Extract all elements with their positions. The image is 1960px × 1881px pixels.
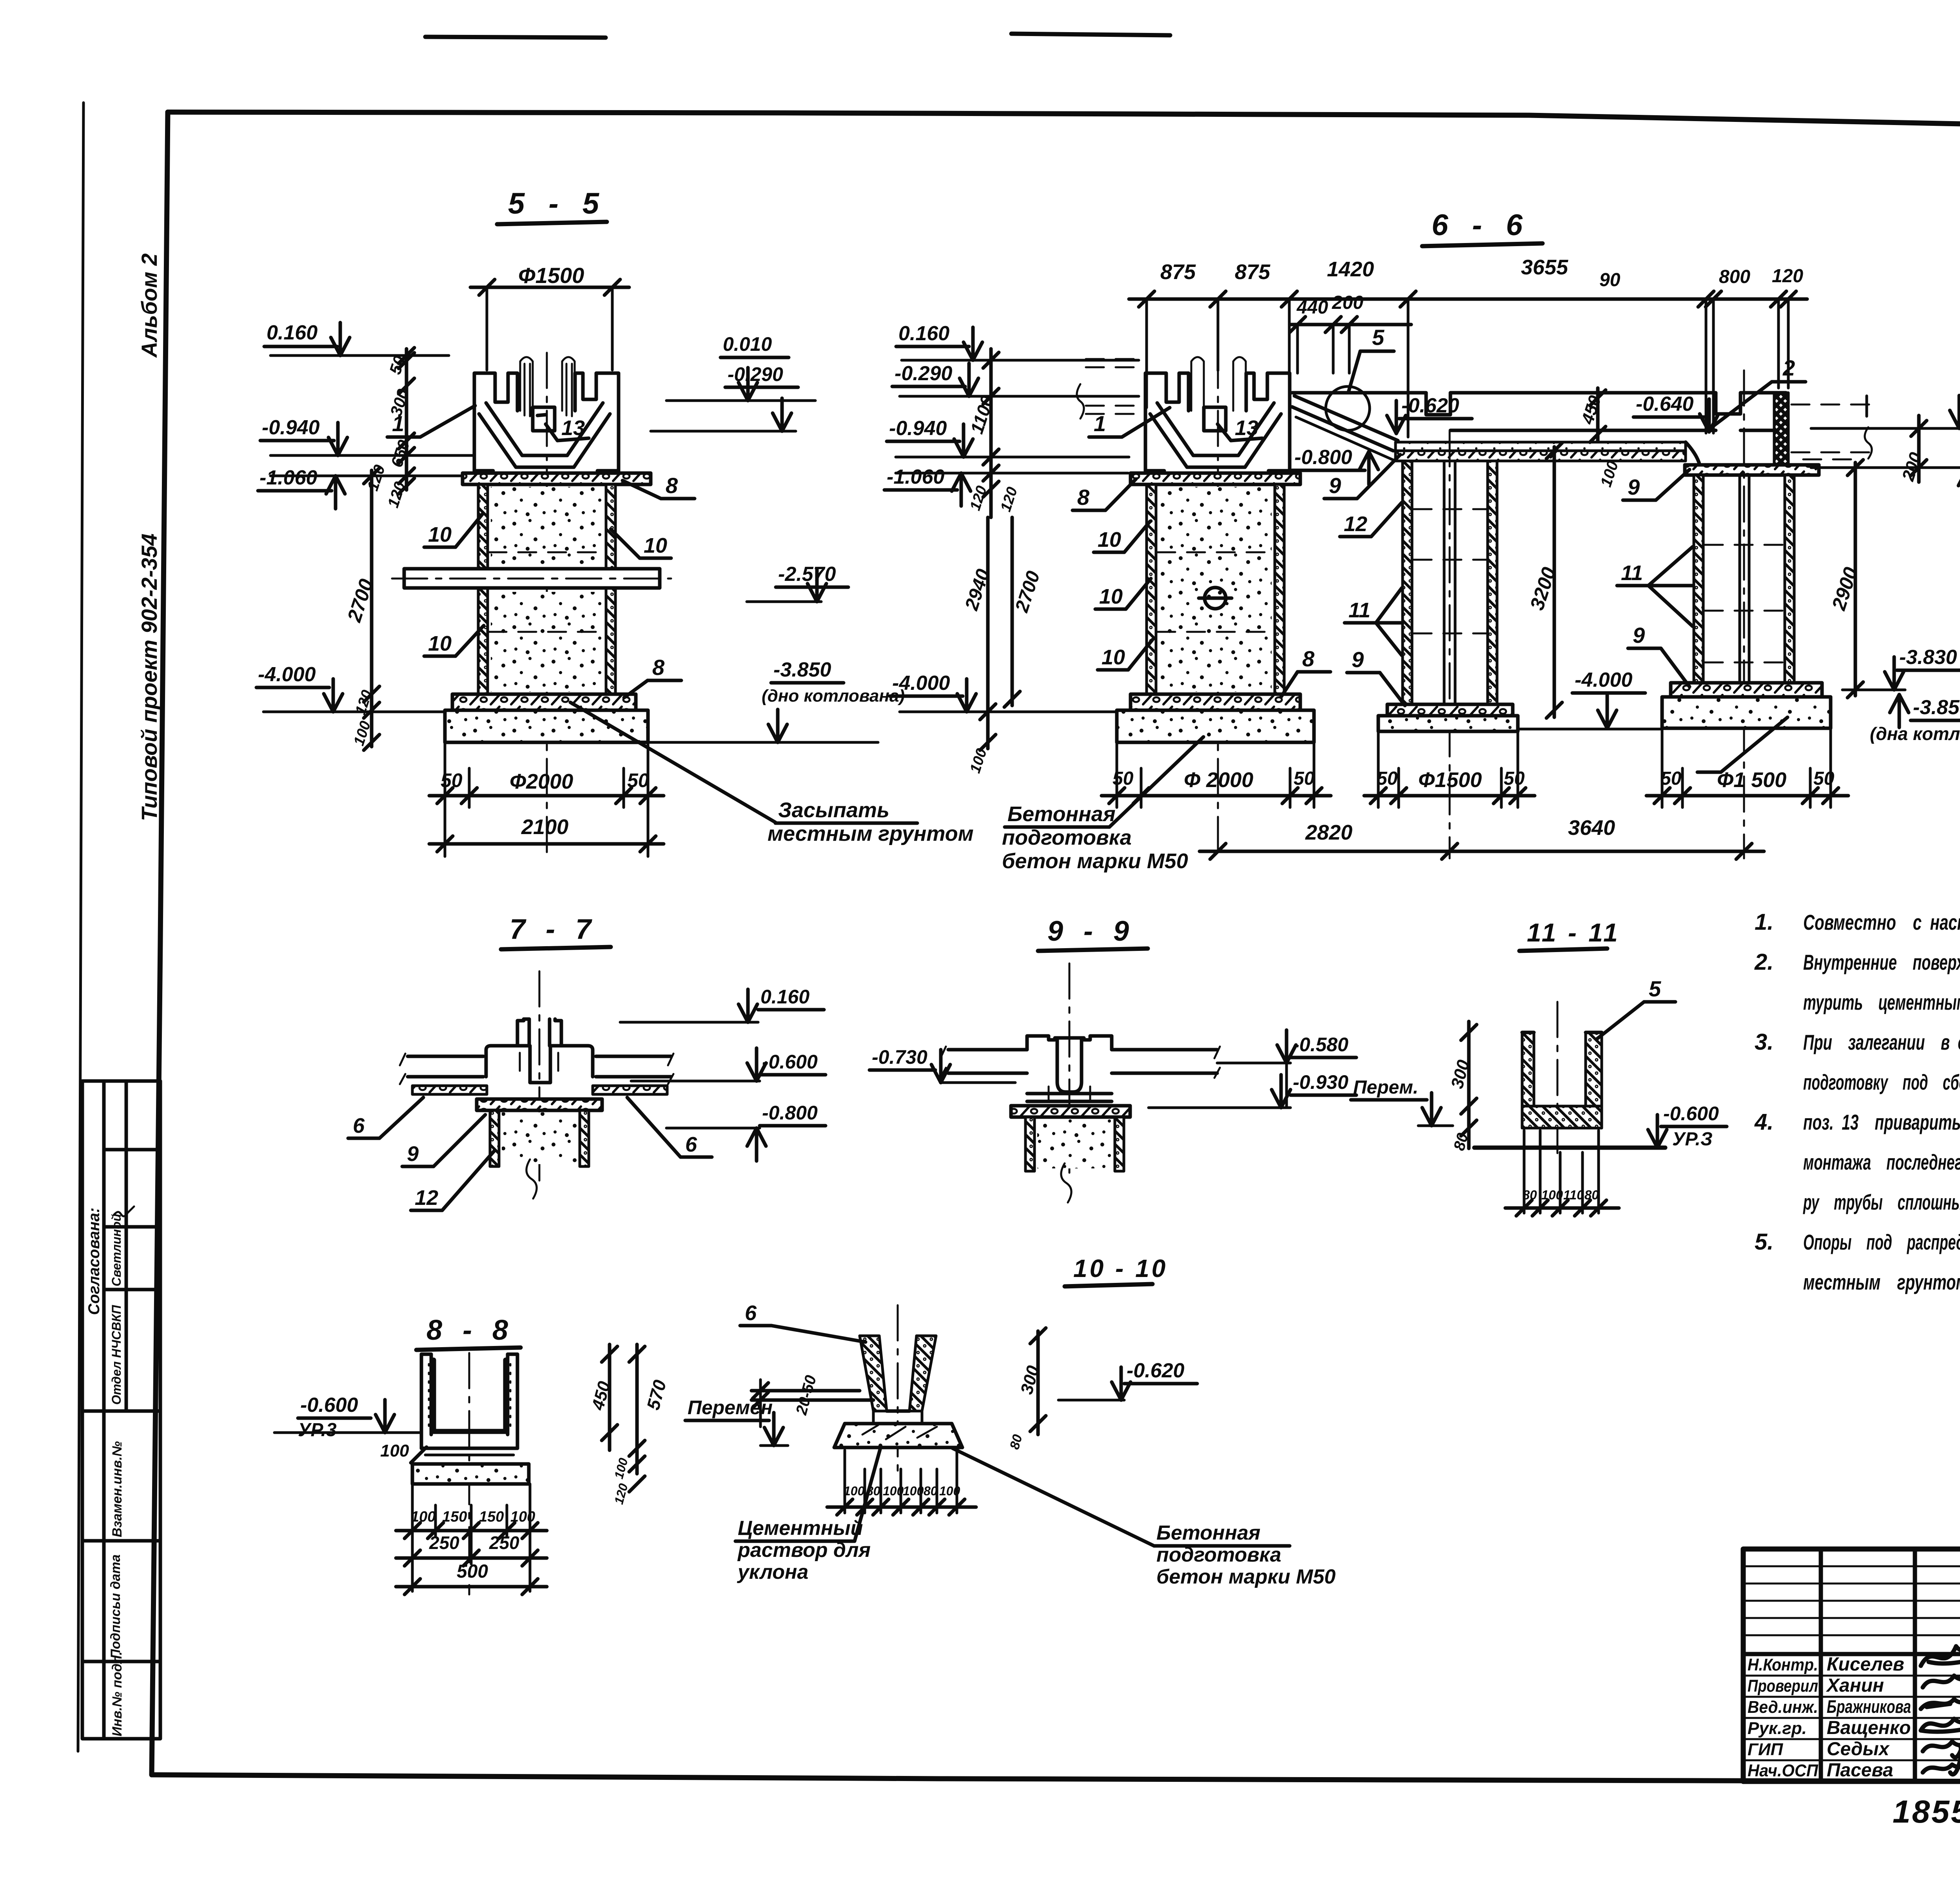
svg-text:80: 80 [924,1484,938,1498]
svg-text:100: 100 [1541,1188,1563,1202]
dim 200 right [1917,415,1921,482]
svg-text:8: 8 [1302,646,1315,671]
svg-text:50: 50 [1112,768,1134,789]
svg-text:Отдел НЧСВКП: Отдел НЧСВКП [109,1305,123,1405]
centerline left shaft [1217,353,1219,858]
svg-text:УР.З: УР.З [1672,1129,1713,1150]
svg-text:Бетонная: Бетонная [1007,802,1116,826]
svg-text:Вед.инж.: Вед.инж. [1748,1698,1818,1717]
dim 2100 [429,842,664,846]
svg-text:9 - 9: 9 - 9 [1047,916,1135,947]
svg-text:5: 5 [1372,325,1385,350]
svg-text:18554-02 1Б формат 22: 18554-02 1Б формат 22 [1893,1794,1960,1830]
svg-text:Ф1 500: Ф1 500 [1717,768,1786,792]
svg-text:Седых: Седых [1827,1739,1890,1759]
svg-text:Н.Контр.: Н.Контр. [1748,1655,1818,1674]
svg-text:Светлиной: Светлиной [109,1214,123,1286]
svg-text:-0.800: -0.800 [762,1102,818,1124]
concrete foundation pad [445,710,648,742]
bottom ring slab pos.8 [452,694,636,710]
left shaft bottom slab [1131,694,1300,710]
svg-text:3655: 3655 [1521,256,1568,279]
svg-text:Согласована:: Согласована: [85,1208,103,1315]
svg-text:-0.290: -0.290 [895,362,953,385]
middle shaft bottom slab [1387,704,1513,716]
left dim chain inner [405,349,408,490]
svg-text:800: 800 [1719,267,1750,287]
right shaft walls [1694,475,1703,683]
svg-text:100: 100 [844,1484,865,1498]
svg-text:50: 50 [441,769,463,791]
svg-text:110: 110 [1563,1188,1584,1202]
svg-text:Бражникова: Бражникова [1827,1696,1911,1717]
shim lines left [751,1389,860,1393]
survey mark circle [1205,588,1226,609]
U trough walls [420,1354,423,1448]
svg-text:Киселев: Киселев [1827,1654,1904,1675]
dim 2820 / 3640 [1200,850,1764,853]
bottom small dims [1523,1130,1526,1213]
dim 2900 [1854,463,1857,696]
svg-text:ру трубы сплошным швом, Эл: ру трубы сплошным швом, Электродами типа… [1803,1190,1960,1214]
svg-text:2820: 2820 [1305,821,1352,844]
svg-text:13: 13 [561,416,585,440]
small dims under pad [844,1450,846,1513]
svg-text:-0.620: -0.620 [1127,1359,1185,1382]
svg-text:Ващенко: Ващенко [1827,1718,1911,1738]
svg-text:6: 6 [353,1114,365,1137]
svg-text:-0.940: -0.940 [262,416,320,439]
left dim chain outer 2700 [370,470,374,747]
svg-text:150: 150 [442,1509,467,1525]
V trough walls hatched [860,1336,887,1411]
left vertical dim chains [989,349,993,517]
svg-text:местным грунтом: местным грунтом [768,822,974,845]
distribution chamber cap (pos.1) in 6-6 [1145,357,1290,471]
svg-text:100: 100 [510,1509,535,1525]
svg-text:-0.940: -0.940 [889,417,947,440]
svg-text:-3.830: -3.830 [1899,646,1957,669]
top dimension chain 875 875 1420 3655 90 800 120 [1129,297,1807,301]
svg-text:9: 9 [407,1142,419,1166]
svg-text:Пасева: Пасева [1827,1760,1893,1781]
chamber cap (pos.1) [474,373,517,471]
slab under block [477,1099,602,1110]
support walls [1025,1117,1034,1171]
svg-text:2: 2 [1782,356,1795,380]
svg-text:6: 6 [685,1133,697,1156]
sheet frame (warped scan) [168,112,1960,135]
svg-text:Ф 2000: Ф 2000 [1184,768,1253,792]
svg-text:-0.620: -0.620 [1401,394,1459,417]
svg-text:9: 9 [1633,623,1645,648]
middle support shaft walls pos.11 [1403,461,1412,704]
svg-text:Перем.: Перем. [1353,1077,1418,1098]
6-6 bottom dims [1116,742,1118,807]
svg-text:5 - 5: 5 - 5 [508,187,607,220]
left margin table: Согласована [82,1081,160,1411]
svg-text:8: 8 [1077,485,1090,510]
left margin thin trim line [78,103,83,1751]
backfill inside shaft [491,487,604,565]
svg-text:1: 1 [392,411,404,436]
bottom dim rows [411,1484,414,1591]
chamber upper wall outline [1292,393,1786,415]
svg-text:8: 8 [652,655,665,680]
svg-text:подготовка: подготовка [1002,826,1132,849]
svg-text:УР.3: УР.3 [298,1420,337,1440]
svg-text:80: 80 [1523,1188,1537,1202]
bedding joint [425,1454,514,1457]
svg-text:4.: 4. [1754,1109,1773,1135]
dim 3200 [1553,447,1556,717]
svg-text:-0.730: -0.730 [872,1046,927,1068]
right dims 450 570 [608,1344,612,1450]
svg-text:11 - 11: 11 - 11 [1527,918,1620,947]
chamber right end dashed continuation [1791,404,1870,406]
svg-text:9: 9 [1628,475,1640,499]
svg-text:10: 10 [428,523,452,546]
svg-text:-4.000: -4.000 [1575,669,1633,691]
shaft wall rings pos.10 left [478,484,488,694]
svg-text:50: 50 [1377,768,1398,789]
svg-text:50: 50 [627,769,649,791]
svg-text:ГИП: ГИП [1748,1740,1784,1759]
svg-text:1420: 1420 [1327,258,1374,281]
svg-text:100: 100 [411,1509,436,1525]
left shaft top slab pos.8 [1131,473,1300,484]
inner torkret lining [434,1360,506,1431]
left margin strip: Взамен инв.№ / Подписьи дата / Инв.№ подл. [82,1411,160,1739]
svg-text:-0.600: -0.600 [762,1051,818,1073]
dno kotlovana line [648,741,878,744]
svg-text:Нач.ОСП: Нач.ОСП [1748,1761,1818,1780]
svg-text:9: 9 [1329,473,1341,498]
dim 50 Ф2000 50 below [444,742,446,807]
central cast block [1027,1036,1112,1050]
svg-text:Ханин: Ханин [1826,1675,1884,1696]
svg-text:Бетонная: Бетонная [1156,1522,1260,1544]
svg-text:250: 250 [489,1533,519,1553]
incoming trough dashed (beyond section) [1086,358,1138,360]
svg-text:бетон марки М50: бетон марки М50 [1002,849,1188,873]
detail 4 reference circle on joint [1326,386,1370,430]
svg-text:200: 200 [1332,292,1363,313]
svg-text:-0.600: -0.600 [300,1394,358,1417]
svg-text:0.160: 0.160 [267,321,318,344]
foundation slab [412,1464,529,1484]
svg-text:5: 5 [1649,976,1661,1001]
svg-text:(дна котлована): (дна котлована) [1870,724,1960,744]
svg-text:150: 150 [479,1509,504,1525]
svg-text:11: 11 [1621,561,1643,585]
svg-text:8: 8 [666,473,678,498]
svg-text:3640: 3640 [1568,816,1615,840]
svg-text:11: 11 [1348,599,1370,622]
svg-text:бетон марки М50: бетон марки М50 [1156,1565,1336,1588]
svg-text:100: 100 [903,1484,924,1498]
support ring walls [490,1110,499,1166]
centerline [546,353,548,854]
right pipe [596,1055,671,1058]
svg-text:Цементный: Цементный [738,1517,863,1540]
chamber end wall (sectioned) [1774,393,1788,464]
svg-text:При залегании в основании п: При залегании в основании песчаного грун… [1803,1030,1960,1054]
dim 300 right [1036,1331,1040,1435]
svg-text:Внутренние поверхности лотка: Внутренние поверхности лотка Лтм-1 и кам… [1803,950,1960,974]
svg-text:-0.930: -0.930 [1293,1071,1348,1093]
svg-text:-0.580: -0.580 [1293,1034,1348,1056]
U trough section [1522,1032,1534,1106]
svg-text:(дно котлована): (дно котлована) [762,686,905,706]
svg-text:2100: 2100 [521,815,568,839]
sloping trough from cap to chamber [1294,396,1398,441]
svg-text:50: 50 [1661,768,1682,789]
svg-text:Рук.гр.: Рук.гр. [1748,1719,1807,1738]
svg-text:-1.060: -1.060 [260,466,318,489]
svg-text:уклона: уклона [737,1561,808,1584]
svg-text:3.: 3. [1755,1029,1773,1055]
central cast block [486,1019,524,1077]
svg-text:50: 50 [1813,768,1835,789]
svg-text:Инв.№ подл.: Инв.№ подл. [110,1651,125,1736]
svg-text:Подписьи дата: Подписьи дата [108,1555,123,1659]
left bearing strip hatched [412,1086,487,1094]
svg-text:500: 500 [457,1561,488,1582]
rebar loop pins [520,357,533,411]
svg-text:-4.000: -4.000 [258,663,316,686]
svg-text:5.: 5. [1755,1229,1773,1255]
funnel [486,403,603,455]
svg-text:-3.850: -3.850 [773,658,831,681]
base pad [834,1424,962,1447]
svg-text:-0.640: -0.640 [1636,393,1694,415]
svg-text:Засыпать: Засыпать [778,798,889,822]
svg-text:12: 12 [1344,512,1367,536]
svg-text:поз. 13 приварить к закладн: поз. 13 приварить к закладной детали лот… [1803,1110,1960,1134]
svg-text:10: 10 [644,534,667,557]
svg-text:13: 13 [1235,416,1258,440]
svg-text:10: 10 [428,632,452,655]
right pipe [1112,1048,1217,1052]
left pipe [408,1055,483,1058]
signature grid [1819,1549,1823,1781]
ground line [1474,1146,1665,1150]
svg-text:-4.000: -4.000 [892,672,950,695]
svg-text:Типовой проект 902-2-354: Типовой проект 902-2-354 [137,533,162,821]
svg-text:Ф1500: Ф1500 [1418,768,1482,792]
svg-text:Ф1500: Ф1500 [518,263,584,288]
right support shaft top slab pos.9 [1685,465,1819,475]
left pipe [948,1048,1027,1052]
signatures squiggles [1921,1638,1960,1666]
svg-text:250: 250 [429,1533,459,1553]
svg-text:100: 100 [380,1441,409,1460]
ring joint dashed lines [488,551,605,553]
svg-text:10 - 10: 10 - 10 [1073,1254,1168,1282]
svg-text:0.010: 0.010 [723,333,772,355]
svg-text:6 - 6: 6 - 6 [1432,209,1530,242]
svg-text:10: 10 [1102,646,1125,669]
svg-text:50: 50 [1294,768,1315,789]
svg-text:2.: 2. [1754,949,1773,975]
svg-text:-3.850: -3.850 [1913,696,1960,719]
svg-text:120: 120 [1772,266,1803,287]
pipe stub pos.13 [533,407,555,431]
dim 450 [1596,388,1600,441]
left shaft foundation [1117,710,1314,742]
svg-text:1: 1 [1094,411,1106,436]
svg-text:90: 90 [1599,270,1621,290]
svg-text:9: 9 [1352,647,1364,672]
svg-text:7 - 7: 7 - 7 [510,914,597,945]
backfill speckle [1160,487,1272,692]
svg-text:-0.290: -0.290 [728,363,783,385]
svg-text:0.160: 0.160 [760,986,809,1008]
svg-text:-0.800: -0.800 [1294,446,1352,469]
svg-text:монтажа последнего. Сварку: монтажа последнего. Сварку выполнять по … [1803,1150,1960,1174]
svg-text:100: 100 [939,1484,960,1498]
svg-text:10: 10 [1098,528,1121,551]
svg-text:Ф2000: Ф2000 [510,770,573,793]
svg-text:8 - 8: 8 - 8 [426,1315,514,1346]
svg-text:100: 100 [883,1484,904,1498]
top ring slab pos.8 [463,473,651,484]
svg-text:Взамен.инв.№: Взамен.инв.№ [110,1441,125,1537]
svg-text:Альбом 2: Альбом 2 [137,253,162,358]
svg-text:Проверил: Проверил [1748,1676,1818,1696]
svg-text:-0.600: -0.600 [1663,1103,1719,1125]
svg-text:подготовку под сборными эле: подготовку под сборными элементами не вы… [1803,1070,1960,1094]
shaft wall rings pos.10 right [606,484,615,694]
svg-text:местным грунтом.: местным грунтом. [1803,1270,1960,1294]
left shaft walls pos.10 [1147,484,1156,694]
svg-text:0.160: 0.160 [898,322,949,345]
svg-text:875: 875 [1235,260,1270,284]
svg-text:1.: 1. [1755,909,1773,935]
svg-text:440: 440 [1296,297,1328,318]
svg-text:турить цементным раствором: турить цементным раствором состава 1:2 т… [1803,990,1960,1014]
svg-text:6: 6 [745,1301,757,1325]
svg-text:875: 875 [1160,260,1196,284]
svg-text:12: 12 [415,1186,438,1210]
slab [1011,1106,1130,1117]
pipe through shaft at -2.570 [404,569,660,588]
svg-text:Опоры под распределительную: Опоры под распределительную камеру и лот… [1803,1230,1960,1254]
svg-text:Совместно с настоящим листом: Совместно с настоящим листом смотреть ли… [1803,910,1960,934]
svg-text:10: 10 [1099,585,1123,608]
svg-text:80: 80 [1584,1188,1599,1202]
scan artifact: paper edge marks top [425,37,606,38]
right foundation leader [1721,717,1788,772]
right shaft bottom slab [1671,683,1822,697]
svg-text:50: 50 [1504,768,1525,789]
svg-text:-1.060: -1.060 [887,466,945,488]
chamber floor screed and slab [1396,442,1686,451]
dims 300 / 80 [1467,1021,1471,1148]
